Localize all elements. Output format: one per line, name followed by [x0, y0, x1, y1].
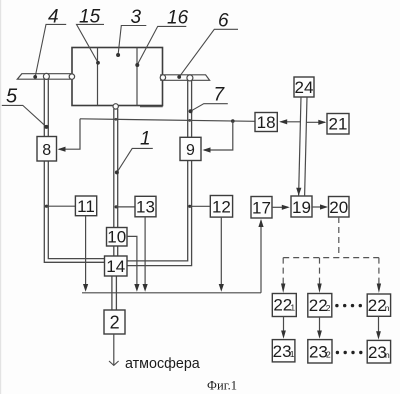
label 6 [177, 11, 238, 79]
center pipe box 14 to box 2 [112, 276, 117, 310]
box 2 [104, 310, 125, 334]
junction bulge at center pipe crossing [115, 118, 118, 121]
svg-text:атмосфера: атмосфера [125, 356, 200, 372]
label 1 [115, 129, 153, 175]
drop line to box 9 [204, 121, 233, 150]
arrow into box 9 [203, 147, 211, 152]
line from left pipe to box 11 [45, 205, 76, 208]
box 18 [255, 113, 277, 132]
box 17 [251, 197, 272, 219]
right flange pipe circle [187, 75, 193, 81]
main horizontal line to box 18 [80, 119, 255, 122]
svg-text:8: 8 [42, 142, 51, 159]
dashed drop to box 22-1 [281, 258, 285, 293]
dashed drop to box 22-n [377, 258, 381, 293]
vessel divider right (16) [136, 48, 138, 106]
label 3 [116, 7, 146, 57]
svg-text:6: 6 [218, 11, 229, 32]
drop from box 12 [219, 217, 224, 292]
box 23-2 [308, 340, 332, 363]
arrow 22-n to 23-n [376, 316, 381, 339]
box 19 [291, 196, 312, 217]
svg-text:9: 9 [186, 142, 195, 159]
label 15 [77, 7, 105, 65]
arrow into box 8 [58, 147, 66, 152]
left line 24 to 19 [296, 97, 301, 196]
right line 24 to 19 [305, 97, 307, 196]
arrow 22-2 to 23-2 [317, 317, 322, 339]
svg-text:19: 19 [292, 198, 311, 217]
svg-text:7: 7 [214, 85, 226, 106]
arrow 17 to 19 [272, 205, 290, 210]
svg-text:11: 11 [77, 197, 95, 216]
box 9 [180, 137, 201, 160]
branch arrow into box 18 [279, 119, 300, 124]
left pipe lower to box 14 [44, 161, 104, 262]
vessel bottom edge doubled segment [140, 106, 163, 108]
svg-text:14: 14 [106, 257, 125, 276]
box 10 [107, 227, 128, 246]
text atmosphere [125, 356, 200, 372]
svg-text:2: 2 [110, 313, 120, 333]
box 20 [329, 197, 350, 218]
svg-text:21: 21 [329, 115, 348, 134]
left pipe upper (5) [44, 79, 48, 136]
svg-text:2: 2 [326, 350, 331, 360]
dashed line from box 20 down [338, 217, 340, 258]
svg-text:10: 10 [107, 227, 126, 246]
exhaust line below box 2 [113, 334, 115, 365]
svg-text:3: 3 [131, 7, 142, 28]
arrow 22-1 to 23-1 [281, 317, 286, 339]
junction bulge at right pipe crossing [188, 119, 191, 122]
svg-text:2: 2 [326, 303, 331, 313]
svg-text:13: 13 [136, 198, 155, 217]
junction node above box 9 [231, 119, 235, 123]
dashed drop to box 22-2 [317, 258, 321, 293]
vessel bottom port circle [113, 104, 118, 109]
box 11 [75, 196, 96, 216]
svg-text:1: 1 [290, 349, 295, 359]
line from center pipe to box 13 [115, 205, 135, 208]
box 22-2 [308, 294, 332, 318]
riser into box 17 [258, 219, 263, 293]
vessel divider left (15) [97, 48, 99, 106]
box 12 [210, 196, 232, 218]
left flange bar 4 [17, 74, 70, 80]
dashed distribution bus [283, 257, 379, 259]
svg-text:12: 12 [212, 198, 231, 217]
box 22-1 [272, 294, 296, 317]
branch arrow into box 21 [306, 120, 326, 125]
right pipe lower to box 14 [127, 161, 192, 266]
dots between 23-2 and 23-n [336, 351, 363, 354]
box 23-1 [272, 340, 295, 362]
drop from box 11 [83, 216, 88, 292]
open arrow to atmosphere [109, 361, 119, 365]
left flange pipe circle [43, 73, 49, 79]
figure caption [207, 379, 237, 393]
drop from box 13 [143, 217, 148, 292]
center pipe between box 10 and box 14 [114, 246, 118, 256]
label 7 [189, 85, 228, 114]
scan edge [0, 0, 1, 394]
box 24 [294, 77, 314, 97]
svg-text:16: 16 [167, 8, 189, 29]
box 21 [327, 114, 349, 135]
right flange bar 6 [161, 75, 210, 81]
drop line to box 8 [59, 119, 80, 149]
label 16 [135, 8, 188, 68]
svg-text:n: n [385, 303, 390, 313]
vessel (tank) 3 [72, 48, 163, 106]
svg-text:1: 1 [290, 303, 295, 313]
box 14 [105, 256, 128, 276]
label 4 [33, 7, 66, 79]
box 22-n [367, 294, 390, 316]
left flange vessel circle [69, 74, 74, 79]
box 13 [135, 196, 156, 217]
dots between 22-2 and 22-n [335, 304, 362, 307]
svg-text:5: 5 [6, 86, 18, 108]
svg-text:Фиг.1: Фиг.1 [207, 379, 237, 393]
label 5 [2, 86, 49, 129]
branch from box 10 [127, 236, 140, 291]
svg-text:24: 24 [295, 78, 314, 97]
arrow 19 to 20 [312, 204, 328, 209]
right pipe upper (7) [188, 80, 192, 137]
center pipe from vessel to box 10 [114, 109, 118, 228]
svg-text:18: 18 [257, 113, 276, 132]
box 23-n [367, 340, 390, 363]
box 8 [37, 137, 57, 162]
collector line above box 2 [82, 292, 261, 294]
svg-text:1: 1 [140, 129, 151, 150]
svg-text:n: n [385, 350, 390, 360]
line from right pipe to box 12 [188, 205, 210, 208]
right flange vessel circle [160, 75, 165, 80]
svg-text:17: 17 [252, 199, 271, 218]
svg-text:20: 20 [329, 198, 348, 217]
